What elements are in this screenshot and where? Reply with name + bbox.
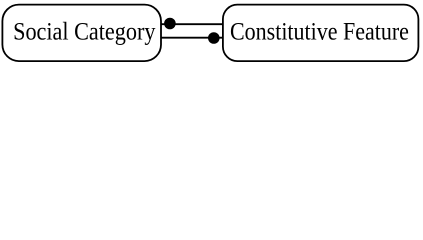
wire top connector xyxy=(161,23,223,25)
svg-text:Social Category: Social Category xyxy=(13,18,155,46)
node dot right (on bottom wire) xyxy=(208,32,220,44)
node dot left (on top wire) xyxy=(164,18,176,30)
svg-text:Constitutive Feature: Constitutive Feature xyxy=(230,18,409,46)
box Social Category xyxy=(2,5,161,62)
wire bottom connector xyxy=(161,37,223,39)
box Constitutive Feature xyxy=(223,5,419,62)
